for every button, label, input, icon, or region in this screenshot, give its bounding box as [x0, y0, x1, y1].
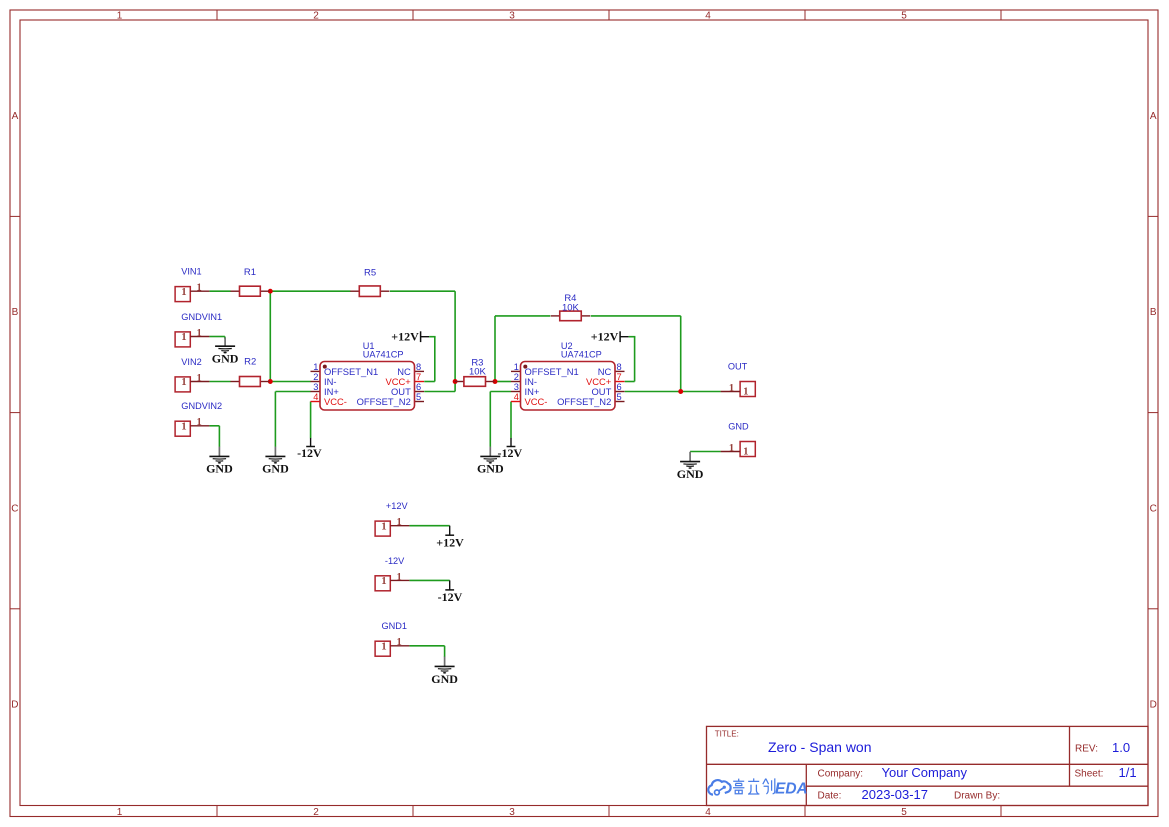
svg-text:7: 7 — [617, 372, 622, 382]
svg-text:GND: GND — [206, 462, 233, 476]
svg-text:-12V: -12V — [297, 446, 322, 460]
svg-text:4: 4 — [705, 807, 711, 818]
svg-text:1: 1 — [396, 572, 401, 583]
svg-text:GND1: GND1 — [382, 621, 408, 631]
svg-text:Company:: Company: — [818, 768, 864, 779]
svg-text:1: 1 — [396, 637, 401, 648]
svg-text:GND: GND — [677, 467, 704, 481]
svg-text:TITLE:: TITLE: — [715, 730, 739, 739]
svg-text:1: 1 — [117, 11, 123, 22]
svg-text:2: 2 — [313, 11, 319, 22]
svg-text:+12V: +12V — [436, 535, 464, 549]
svg-text:3: 3 — [509, 807, 515, 818]
svg-text:A: A — [1150, 111, 1157, 122]
svg-text:Your Company: Your Company — [882, 765, 968, 780]
svg-text:1.0: 1.0 — [1112, 740, 1130, 755]
svg-text:+12V: +12V — [391, 329, 419, 343]
svg-text:2: 2 — [313, 372, 318, 382]
svg-text:R2: R2 — [244, 357, 256, 368]
svg-text:D: D — [1150, 700, 1157, 711]
svg-text:1: 1 — [181, 376, 186, 388]
svg-text:10K: 10K — [562, 302, 580, 313]
svg-text:+12V: +12V — [386, 501, 409, 511]
svg-text:5: 5 — [901, 11, 907, 22]
svg-text:1: 1 — [729, 383, 734, 394]
svg-text:2: 2 — [313, 807, 319, 818]
svg-text:1: 1 — [514, 362, 519, 372]
svg-text:REV:: REV: — [1075, 744, 1098, 755]
svg-text:VIN2: VIN2 — [181, 357, 201, 367]
svg-text:Date:: Date: — [818, 791, 842, 802]
svg-text:3: 3 — [313, 382, 318, 392]
svg-text:UA741CP: UA741CP — [561, 349, 602, 359]
svg-text:OFFSET_N2: OFFSET_N2 — [557, 396, 611, 407]
svg-text:-12V: -12V — [385, 556, 405, 566]
svg-text:-12V: -12V — [438, 590, 463, 604]
svg-text:4: 4 — [705, 11, 711, 22]
svg-text:OUT: OUT — [728, 362, 748, 372]
svg-text:8: 8 — [617, 362, 622, 372]
svg-text:1: 1 — [313, 362, 318, 372]
svg-text:UA741CP: UA741CP — [363, 349, 404, 359]
svg-text:VCC-: VCC- — [324, 396, 347, 407]
svg-text:5: 5 — [416, 392, 421, 402]
svg-text:A: A — [12, 111, 19, 122]
svg-text:-12V: -12V — [497, 446, 522, 460]
svg-text:R1: R1 — [244, 267, 256, 278]
svg-text:8: 8 — [416, 362, 421, 372]
svg-text:GNDVIN2: GNDVIN2 — [181, 401, 222, 411]
svg-text:1: 1 — [381, 640, 386, 652]
svg-text:1: 1 — [396, 517, 401, 528]
svg-text:+12V: +12V — [591, 329, 619, 343]
svg-text:2023-03-17: 2023-03-17 — [862, 787, 929, 802]
svg-text:Sheet:: Sheet: — [1075, 768, 1104, 779]
svg-text:6: 6 — [416, 382, 421, 392]
svg-text:4: 4 — [313, 392, 318, 402]
svg-text:VCC-: VCC- — [525, 396, 548, 407]
svg-text:3: 3 — [514, 382, 519, 392]
svg-text:1: 1 — [743, 446, 748, 458]
svg-text:7: 7 — [416, 372, 421, 382]
svg-text:1: 1 — [117, 807, 123, 818]
svg-text:C: C — [11, 503, 18, 514]
svg-text:1: 1 — [381, 575, 386, 587]
svg-text:B: B — [12, 307, 19, 318]
svg-text:1: 1 — [381, 520, 386, 532]
svg-text:R5: R5 — [364, 267, 376, 278]
svg-text:4: 4 — [514, 392, 519, 402]
svg-text:1: 1 — [729, 443, 734, 454]
svg-text:B: B — [1150, 307, 1157, 318]
svg-text:2: 2 — [514, 372, 519, 382]
svg-text:1: 1 — [196, 283, 201, 294]
svg-text:5: 5 — [901, 807, 907, 818]
svg-text:1/1: 1/1 — [1119, 765, 1137, 780]
svg-text:VIN1: VIN1 — [181, 267, 201, 277]
svg-text:3: 3 — [509, 11, 515, 22]
svg-text:GND: GND — [477, 462, 504, 476]
svg-text:10K: 10K — [469, 366, 487, 377]
svg-text:5: 5 — [617, 392, 622, 402]
svg-text:C: C — [1150, 503, 1157, 514]
svg-text:6: 6 — [617, 382, 622, 392]
svg-text:GND: GND — [262, 462, 289, 476]
svg-text:1: 1 — [181, 420, 186, 432]
svg-text:GND: GND — [212, 352, 239, 366]
svg-text:Zero - Span won: Zero - Span won — [768, 739, 872, 755]
svg-text:1: 1 — [196, 417, 201, 428]
svg-text:GND: GND — [431, 672, 458, 686]
svg-text:1: 1 — [181, 331, 186, 343]
svg-text:GND: GND — [728, 422, 749, 432]
svg-text:GNDVIN1: GNDVIN1 — [181, 312, 222, 322]
svg-text:1: 1 — [181, 286, 186, 298]
svg-text:OFFSET_N2: OFFSET_N2 — [357, 396, 411, 407]
svg-text:Drawn By:: Drawn By: — [954, 791, 1000, 802]
svg-text:D: D — [11, 700, 18, 711]
svg-text:EDA: EDA — [775, 781, 808, 798]
svg-text:1: 1 — [196, 328, 201, 339]
svg-text:1: 1 — [743, 386, 748, 398]
svg-text:1: 1 — [196, 373, 201, 384]
